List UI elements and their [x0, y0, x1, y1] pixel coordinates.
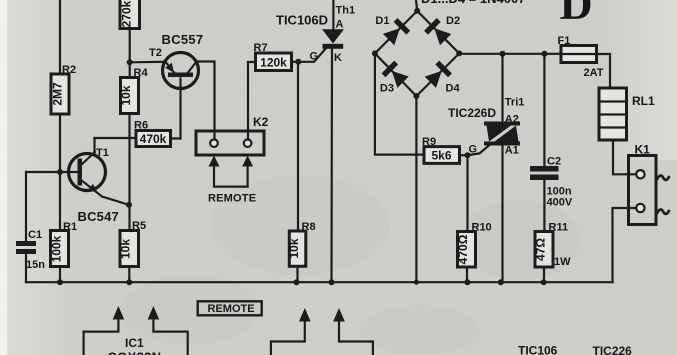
wire T1 collector up [93, 138, 95, 152]
wire Th1 cathode to bus [330, 49, 333, 282]
resistor R7 120k [248, 42, 292, 140]
svg-text:C2: C2 [547, 156, 561, 168]
diode D2 [424, 18, 452, 46]
svg-text:R4: R4 [134, 67, 149, 79]
svg-text:D4: D4 [446, 83, 461, 95]
svg-text:R6: R6 [134, 120, 148, 132]
svg-text:100k: 100k [50, 235, 64, 262]
resistor R8 [287, 221, 316, 266]
svg-text:COX82N: COX82N [108, 350, 162, 355]
wire main top: bridge right to F1 [459, 53, 561, 55]
svg-text:IC1: IC1 [125, 336, 144, 350]
svg-text:15n: 15n [26, 259, 45, 271]
svg-text:D1: D1 [375, 15, 389, 27]
svg-text:47Ω: 47Ω [534, 238, 548, 261]
wire C1 bottom [25, 254, 27, 282]
REMOTE box lower [198, 301, 262, 315]
diode D1 [382, 18, 410, 46]
svg-text:1W: 1W [554, 256, 571, 268]
node gate Tri1/R10 [465, 152, 471, 158]
svg-text:10k: 10k [287, 238, 301, 258]
junction Th1 cathode/bus [329, 279, 335, 285]
junction R10/bus [464, 279, 470, 285]
wire top-left vertical [59, 0, 61, 74]
svg-text:TIC106: TIC106 [518, 344, 558, 355]
resistor R2 [51, 64, 77, 114]
wire R8 to bus [296, 266, 298, 282]
svg-text:R9: R9 [422, 136, 436, 148]
svg-text:R2: R2 [62, 64, 76, 76]
svg-text:TIC226: TIC226 [593, 344, 633, 355]
K2 remote arrows [208, 156, 256, 205]
node T1 emitter junction [126, 202, 132, 208]
svg-text:R10: R10 [472, 222, 492, 234]
terminal block K1 [629, 143, 669, 225]
svg-text:2AT: 2AT [584, 67, 604, 79]
node bridge AC left [372, 50, 378, 56]
svg-text:470Ω: 470Ω [456, 234, 470, 264]
wire 270k down [129, 29, 131, 78]
junction Tri1 A1/bus [498, 279, 504, 285]
svg-text:G: G [469, 144, 478, 156]
thyristor Th1 TIC106D [276, 0, 355, 64]
svg-text:10k: 10k [119, 85, 133, 105]
svg-text:G: G [310, 51, 319, 63]
capacitor C1 [16, 229, 45, 271]
wire bridge arm top-right [417, 11, 459, 54]
svg-text:10k: 10k [119, 239, 133, 259]
junction R1/bus [57, 279, 63, 285]
wire bridge arm bottom-right [416, 53, 459, 96]
svg-text:K1: K1 [635, 143, 651, 157]
svg-text:A1: A1 [505, 145, 519, 157]
node bridge plus (top) [414, 8, 420, 14]
svg-text:D2: D2 [446, 15, 460, 27]
junction R11/bus [541, 279, 547, 285]
svg-text:REMOTE: REMOTE [208, 303, 255, 315]
svg-text:RL1: RL1 [632, 94, 655, 108]
svg-text:Th1: Th1 [336, 5, 356, 17]
svg-text:120k: 120k [260, 56, 287, 70]
resistor R9 5k6 [422, 136, 460, 163]
wire F1 to RL1 [597, 54, 611, 88]
junction R5/bus [126, 279, 132, 285]
svg-text:400V: 400V [547, 197, 573, 209]
svg-text:BC547: BC547 [78, 209, 119, 224]
node Th1 gate/R8 [295, 59, 301, 65]
wire R1 to bus [59, 267, 61, 283]
svg-text:Tri1: Tri1 [505, 97, 525, 109]
svg-text:T2: T2 [149, 47, 162, 59]
wire T1 base horizontal [26, 171, 78, 173]
svg-text:REMOTE: REMOTE [208, 193, 256, 205]
wire R8 top [297, 62, 299, 231]
wire R7 to gate node [292, 61, 299, 63]
IC1 box with arrows [84, 306, 188, 355]
relay coil RL1 [599, 88, 655, 140]
wire R2 to R1 [59, 114, 61, 231]
resistor R1 [50, 221, 78, 267]
wire bridge left node down [375, 53, 424, 154]
diode D3 [382, 61, 410, 89]
junction Tri1 A2/top wire [500, 51, 506, 57]
node T1 base junction [57, 169, 63, 175]
wire gate node to triac gate [468, 145, 490, 155]
resistor 270k top [120, 0, 140, 29]
triac Tri1 TIC226D [448, 54, 524, 282]
receiver box with arrows [271, 308, 373, 355]
junction bridge minus/bus [414, 280, 419, 285]
svg-text:T1: T1 [96, 147, 109, 159]
resistor R4 [119, 67, 148, 114]
wire bridge bottom to bus [415, 96, 417, 282]
svg-text:R8: R8 [302, 221, 316, 233]
wire R9 to gate node [460, 154, 468, 156]
wire node to T2 emitter [130, 61, 166, 64]
wire RL1 to K1 [613, 140, 636, 174]
wire bridge arm bottom-left [375, 53, 417, 96]
wire R6 to T2 base [171, 79, 181, 139]
svg-text:470k: 470k [140, 132, 167, 146]
svg-text:5k6: 5k6 [431, 149, 451, 163]
svg-text:K: K [334, 52, 342, 64]
relay contact K2 [196, 115, 269, 155]
resistor R11 47R 1W [534, 222, 572, 283]
transistor T2 BC557 [149, 32, 203, 89]
svg-text:D1...D4 = 1N4007: D1...D4 = 1N4007 [421, 0, 525, 6]
svg-text:R7: R7 [254, 42, 268, 54]
svg-text:D3: D3 [380, 83, 394, 95]
svg-text:BC557: BC557 [162, 32, 204, 47]
svg-text:2M7: 2M7 [51, 82, 65, 106]
wire R5 to bus [128, 267, 130, 283]
svg-text:K2: K2 [253, 115, 269, 129]
capacitor C2 [530, 54, 573, 232]
wire K1 lower to bus [613, 208, 637, 282]
diode D4 [424, 61, 452, 89]
svg-text:R11: R11 [549, 222, 569, 234]
wire R4 to R5 [128, 114, 130, 231]
fuse F1 2AT [558, 35, 604, 79]
node 270k/R4/T2 [127, 59, 133, 65]
svg-text:A: A [336, 19, 344, 31]
transistor T1 BC547 [69, 147, 129, 224]
svg-text:C1: C1 [28, 229, 42, 241]
node bridge minus (bottom) [413, 93, 419, 99]
wire T2 collector to K2 [197, 62, 215, 140]
svg-text:D: D [560, 0, 593, 29]
resistor R6 470k [134, 120, 171, 147]
junction R8/bus [294, 279, 300, 285]
svg-text:TIC226D: TIC226D [448, 106, 496, 120]
node bridge AC right [456, 50, 462, 56]
junction C2 branch/top wire [542, 51, 548, 57]
wire bridge top to label [416, 0, 417, 11]
ground bus wire [26, 281, 613, 283]
wire gate to Th1 [298, 49, 325, 62]
resistor R5 [119, 220, 147, 267]
svg-text:R5: R5 [132, 220, 146, 232]
resistor R10 470R [456, 155, 492, 282]
wire C1 top [25, 172, 27, 241]
wire bridge arm top-left [375, 11, 417, 54]
svg-text:R1: R1 [63, 221, 77, 233]
svg-text:TIC106D: TIC106D [276, 13, 328, 28]
svg-text:270k: 270k [120, 0, 134, 27]
